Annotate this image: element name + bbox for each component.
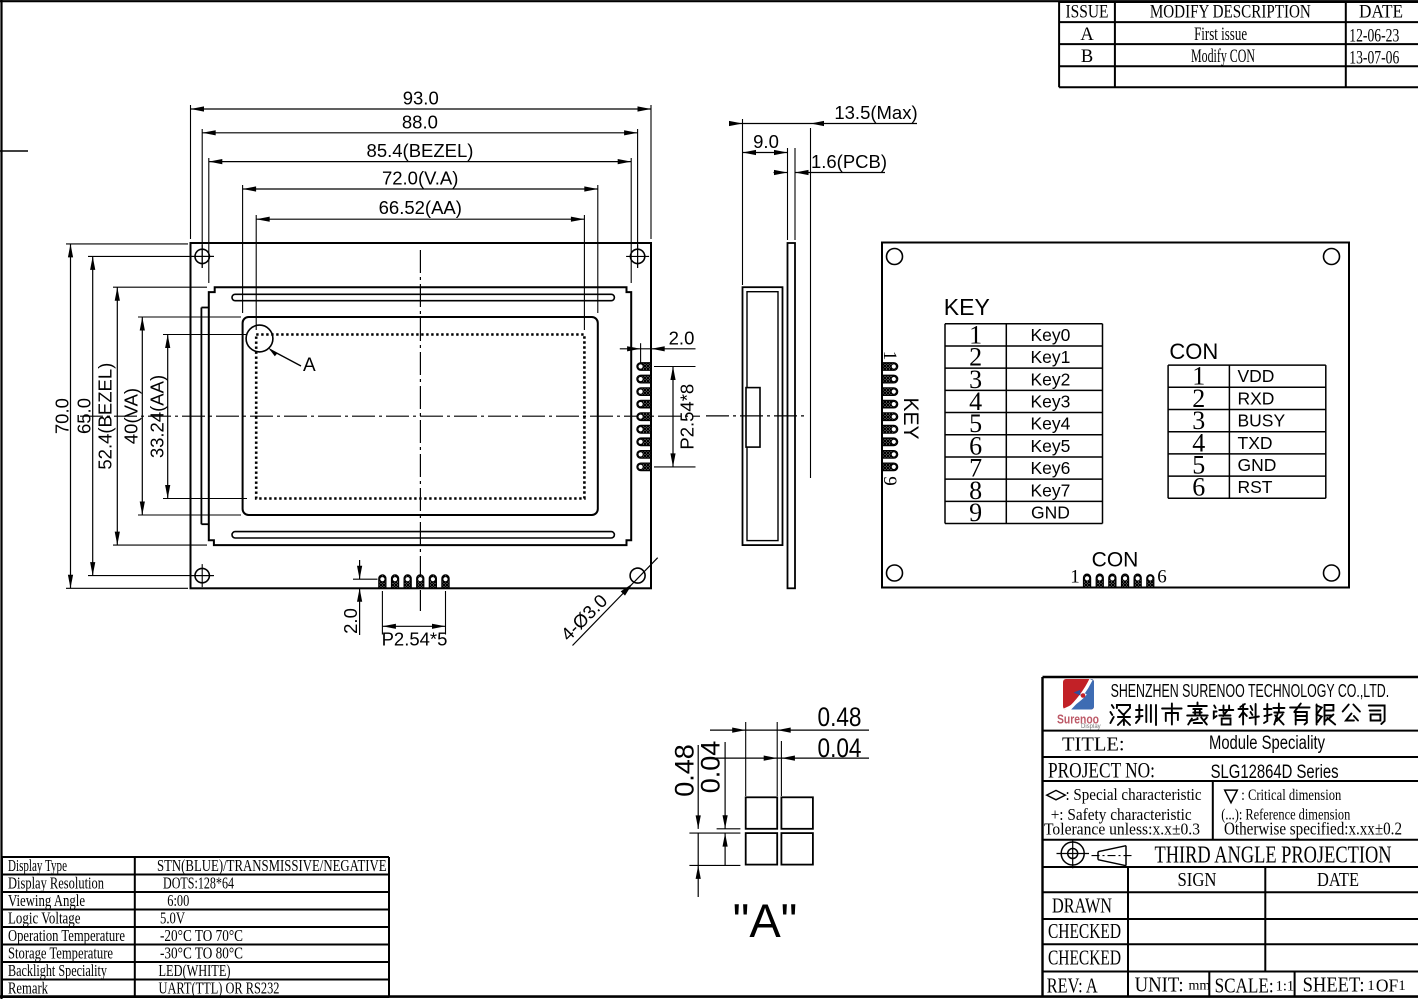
svg-text:0.48: 0.48 [818,702,862,732]
bottom pin header (6 pins) [379,575,449,588]
detail A dimension 0.04 horizontal [710,733,869,796]
svg-text:STN(BLUE)/TRANSMISSIVE/NEGATIV: STN(BLUE)/TRANSMISSIVE/NEGATIVE [157,856,387,875]
svg-text:VDD: VDD [1238,366,1275,386]
svg-text:TXD: TXD [1238,433,1273,453]
svg-text:"A": "A" [733,894,798,947]
svg-text:CON: CON [1092,549,1139,572]
front view centerline vertical [419,250,421,611]
svg-text:UNIT:: UNIT: [1135,973,1184,997]
svg-text:Key4: Key4 [1030,414,1070,434]
svg-text:UART(TTL) OR RS232: UART(TTL) OR RS232 [159,979,280,998]
svg-text:B: B [1081,47,1093,67]
svg-text:52.4(BEZEL): 52.4(BEZEL) [95,363,116,470]
detail A label [733,894,798,947]
svg-text:SHEET:: SHEET: [1303,973,1365,997]
dimension 93.0 [191,88,652,240]
third angle projection text [1155,843,1392,869]
svg-text:RST: RST [1238,477,1273,497]
svg-text:Modify CON: Modify CON [1191,47,1255,67]
revision history table [1059,2,1418,87]
dimension 40(VA) [121,317,242,515]
side view module body [743,287,783,545]
dimension 52.4(BEZEL) [95,287,208,545]
dimension 72.0(V.A) [243,168,598,314]
svg-text:Remark: Remark [8,979,48,998]
front view bezel outline [209,287,631,545]
bezel left side tab [201,308,208,525]
active area dotted border [256,335,584,499]
svg-text:Key2: Key2 [1030,369,1070,389]
mounting hole top-right [626,245,649,268]
front view centerline horizontal [80,415,700,417]
svg-text:mm: mm [1189,979,1211,994]
dimension 66.52(AA) [256,197,584,330]
svg-text:Backlight Speciality: Backlight Speciality [8,961,107,980]
svg-text:DRAWN: DRAWN [1052,894,1112,918]
svg-text:PROJECT NO:: PROJECT NO: [1048,758,1155,783]
dimension 85.4(BEZEL) [209,140,631,283]
dimension 2.0 (bottom pin inset) [340,560,378,635]
title row [1062,733,1325,756]
svg-text:5.0V: 5.0V [160,909,186,928]
svg-text:40(VA): 40(VA) [121,388,142,444]
svg-text:A: A [303,355,316,376]
svg-text:ISSUE: ISSUE [1066,3,1109,23]
dimension 88.0 [202,111,637,268]
detail A dimension 0.04 vertical [696,741,728,866]
svg-text:BUSY: BUSY [1238,411,1286,431]
svg-text:Tolerance unless:x.x±0.3: Tolerance unless:x.x±0.3 [1044,820,1200,839]
dimension 1.6(PCB) [774,148,888,240]
dimension 2.0 (right pin inset) [620,327,696,363]
back view hole top-left [887,249,903,265]
svg-text:Display Resolution: Display Resolution [8,874,104,893]
callout 4-dia3.0 mounting holes [556,558,657,646]
svg-text:6:00: 6:00 [167,891,189,910]
svg-text:Module Speciality: Module Speciality [1209,733,1325,754]
svg-text:LED(WHITE): LED(WHITE) [159,961,231,980]
svg-text:GND: GND [1238,455,1277,475]
svg-text:-30°C TO 80°C: -30°C TO 80°C [160,944,243,963]
svg-text:P2.54*8: P2.54*8 [677,384,698,450]
svg-text:First issue: First issue [1194,25,1247,45]
svg-text:0.04: 0.04 [696,741,726,794]
CON header label (bottom) [1092,549,1139,572]
svg-text:1: 1 [879,351,900,361]
svg-text:2.0: 2.0 [669,327,695,348]
svg-text:TITLE:: TITLE: [1062,734,1125,756]
project no row [1048,758,1339,784]
company name english [1111,680,1390,701]
svg-text:2.0: 2.0 [340,608,361,634]
dimension P2.54*5 (bottom pin pitch) [382,591,448,650]
svg-text:93.0: 93.0 [403,88,439,109]
dimension 33.24(AA) [147,335,248,499]
svg-text:DATE: DATE [1317,869,1359,891]
svg-text:KEY: KEY [899,397,922,439]
KEY pin 1 label [879,351,900,361]
svg-text:CHECKED: CHECKED [1048,946,1121,970]
CON pin 1 label [1070,567,1080,588]
svg-text:Operation Temperature: Operation Temperature [8,926,125,945]
svg-text:65.0: 65.0 [74,398,95,434]
svg-text:72.0(V.A): 72.0(V.A) [382,168,458,189]
back view PCB outline [882,243,1349,588]
svg-text:KEY: KEY [944,294,990,320]
svg-text:1: 1 [1398,978,1406,994]
mounting hole bottom-left [191,564,214,587]
svg-text:REV: A: REV: A [1047,974,1099,998]
KEY pin header on back (9 pins) [883,363,898,471]
bezel top clip slot [232,294,614,300]
dimension 70.0 [52,244,189,588]
svg-text:13.5(Max): 13.5(Max) [834,102,917,123]
svg-text:33.24(AA): 33.24(AA) [147,375,168,458]
mounting hole bottom-right [630,568,645,583]
svg-text:9: 9 [879,476,900,486]
CON pin function table [1168,362,1326,502]
svg-text:0.04: 0.04 [818,733,862,763]
svg-text:THIRD ANGLE PROJECTION: THIRD ANGLE PROJECTION [1155,843,1392,869]
svg-text:1.6(PCB): 1.6(PCB) [811,151,887,172]
svg-text:SLG12864D Series: SLG12864D Series [1211,762,1339,783]
detail circle A marker [246,325,316,376]
Surenoo logo [1057,679,1101,730]
CON table heading [1169,339,1218,364]
KEY header label [899,397,922,439]
LCD glass / viewing area outline [243,317,598,515]
svg-text:9.0: 9.0 [753,131,779,152]
specification table [2,856,389,998]
svg-text:P2.54*5: P2.54*5 [382,629,448,650]
svg-text:Key1: Key1 [1030,347,1070,367]
back view hole bottom-right [1324,565,1340,581]
company name chinese (drawn strokes) [1110,703,1384,726]
svg-text:66.52(AA): 66.52(AA) [379,197,462,218]
svg-text:Key6: Key6 [1030,458,1070,478]
svg-text:SCALE:: SCALE: [1215,974,1274,998]
title block frame [1043,677,1418,997]
dimension 9.0 [743,131,788,240]
svg-text:Display: Display [1081,724,1101,730]
back view hole top-right [1324,249,1340,265]
svg-text:Storage Temperature: Storage Temperature [8,944,113,963]
svg-text:6: 6 [1157,567,1167,588]
svg-text:Key5: Key5 [1030,436,1070,456]
svg-text:1: 1 [1070,567,1080,588]
svg-text:Key3: Key3 [1030,391,1070,411]
svg-text:MODIFY DESCRIPTION: MODIFY DESCRIPTION [1150,3,1311,23]
svg-text:1: 1 [1367,978,1375,994]
detail A dot matrix squares [746,797,813,864]
svg-text:DOTS:128*64: DOTS:128*64 [163,874,234,893]
svg-text:12-06-23: 12-06-23 [1349,27,1399,47]
svg-text:CHECKED: CHECKED [1048,919,1121,943]
dimension 65.0 [74,256,215,575]
svg-text:6: 6 [1192,473,1205,502]
bezel bottom clip slot [232,532,614,538]
svg-text:Viewing Angle: Viewing Angle [8,891,85,910]
svg-text:SIGN: SIGN [1178,869,1217,891]
detail A dimension 0.48 horizontal [710,702,869,796]
svg-text:-20°C TO 70°C: -20°C TO 70°C [160,926,243,945]
right side pin header (9 pins) [637,363,651,471]
svg-text:OF: OF [1376,976,1399,996]
svg-text:70.0: 70.0 [52,398,73,434]
back view hole bottom-left [887,565,903,581]
svg-text:85.4(BEZEL): 85.4(BEZEL) [367,140,474,161]
side view centerline [706,415,806,417]
svg-text:RXD: RXD [1238,388,1275,408]
svg-text:1:1: 1:1 [1276,979,1295,995]
svg-text:DATE: DATE [1359,3,1403,23]
svg-text:: Critical dimension: : Critical dimension [1241,787,1341,804]
side view backlight tab [746,388,760,448]
CON pin 6 label [1157,567,1167,588]
dimension P2.54*8 (right pin pitch) [654,367,698,467]
svg-text:Key0: Key0 [1030,325,1070,345]
detail A extension ticks [689,829,740,866]
KEY table heading [944,294,990,320]
svg-text:88.0: 88.0 [402,111,438,132]
svg-text:9: 9 [969,498,982,527]
svg-text:Display Type: Display Type [8,856,67,875]
dimension 13.5(Max) [729,102,918,478]
svg-text:CON: CON [1169,339,1218,364]
svg-text:A: A [1080,25,1094,45]
third angle projection symbol [1057,840,1133,868]
front view PCB outline [191,243,652,588]
svg-text:Logic Voltage: Logic Voltage [8,909,81,928]
svg-text:Otherwise specified:x.xx±0.2: Otherwise specified:x.xx±0.2 [1224,819,1402,839]
KEY pin function table [945,320,1103,527]
rev unit scale sheet row [1047,972,1406,998]
CON pin header on back (6 pins) [1084,574,1154,587]
KEY pin 9 label [879,476,900,486]
tolerance notes box [1044,781,1402,840]
detail A dimension 0.48 vertical [670,744,701,897]
side view PCB [788,243,796,588]
svg-text:Key7: Key7 [1030,480,1070,500]
svg-text:: Special characteristic: : Special characteristic [1066,785,1202,804]
svg-text:13-07-06: 13-07-06 [1349,49,1399,69]
svg-text:GND: GND [1031,502,1070,522]
mounting hole top-left [191,245,214,268]
svg-text:SHENZHEN SURENOO TECHNOLOGY CO: SHENZHEN SURENOO TECHNOLOGY CO.,LTD. [1111,680,1390,701]
sign date table [1048,867,1359,997]
